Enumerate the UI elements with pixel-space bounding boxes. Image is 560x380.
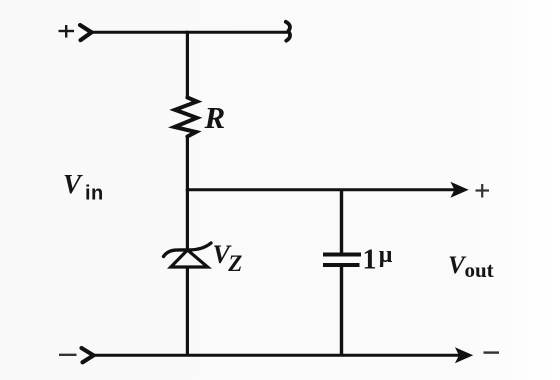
arrowhead output + xyxy=(452,183,468,197)
label + (top-left input polarity) xyxy=(59,25,75,38)
wire: zener to bottom rail xyxy=(186,266,189,357)
label + (output polarity) xyxy=(476,184,490,198)
wire: bottom rail xyxy=(92,354,459,357)
svg-text:1: 1 xyxy=(363,245,377,276)
resistor R (zigzag) xyxy=(175,98,198,137)
input arrow chevron (top-left) xyxy=(80,25,92,40)
arrowhead bottom-right xyxy=(456,348,472,362)
wire: resistor to middle node xyxy=(186,137,189,191)
capacitor C bottom plate xyxy=(323,263,360,267)
wire: vertical from top rail down to resistor xyxy=(186,31,189,97)
label - (bottom-left polarity) xyxy=(59,354,77,356)
svg-text:R: R xyxy=(204,100,226,135)
wire: middle node down to zener xyxy=(186,189,189,249)
svg-text:μ: μ xyxy=(379,242,393,268)
wire: capacitor to bottom rail xyxy=(340,265,343,357)
zener diode VZ : triangle (anode, pointing up) xyxy=(171,250,208,267)
wire: middle rail to output xyxy=(186,188,456,191)
zener diode VZ : cathode bar with curled ends xyxy=(164,243,212,257)
input arrow chevron (bottom-left) xyxy=(82,348,94,362)
wire: top rail xyxy=(90,31,288,34)
curled arrowhead at right end of top rail xyxy=(286,22,290,41)
capacitor C top plate xyxy=(323,253,361,257)
svg-text:out: out xyxy=(465,258,494,282)
svg-text:V: V xyxy=(63,169,83,199)
label - (bottom-right polarity) xyxy=(484,351,500,353)
svg-text:Z: Z xyxy=(227,251,242,276)
wire: capacitor branch from middle rail xyxy=(340,189,343,254)
svg-text:in: in xyxy=(85,183,104,205)
